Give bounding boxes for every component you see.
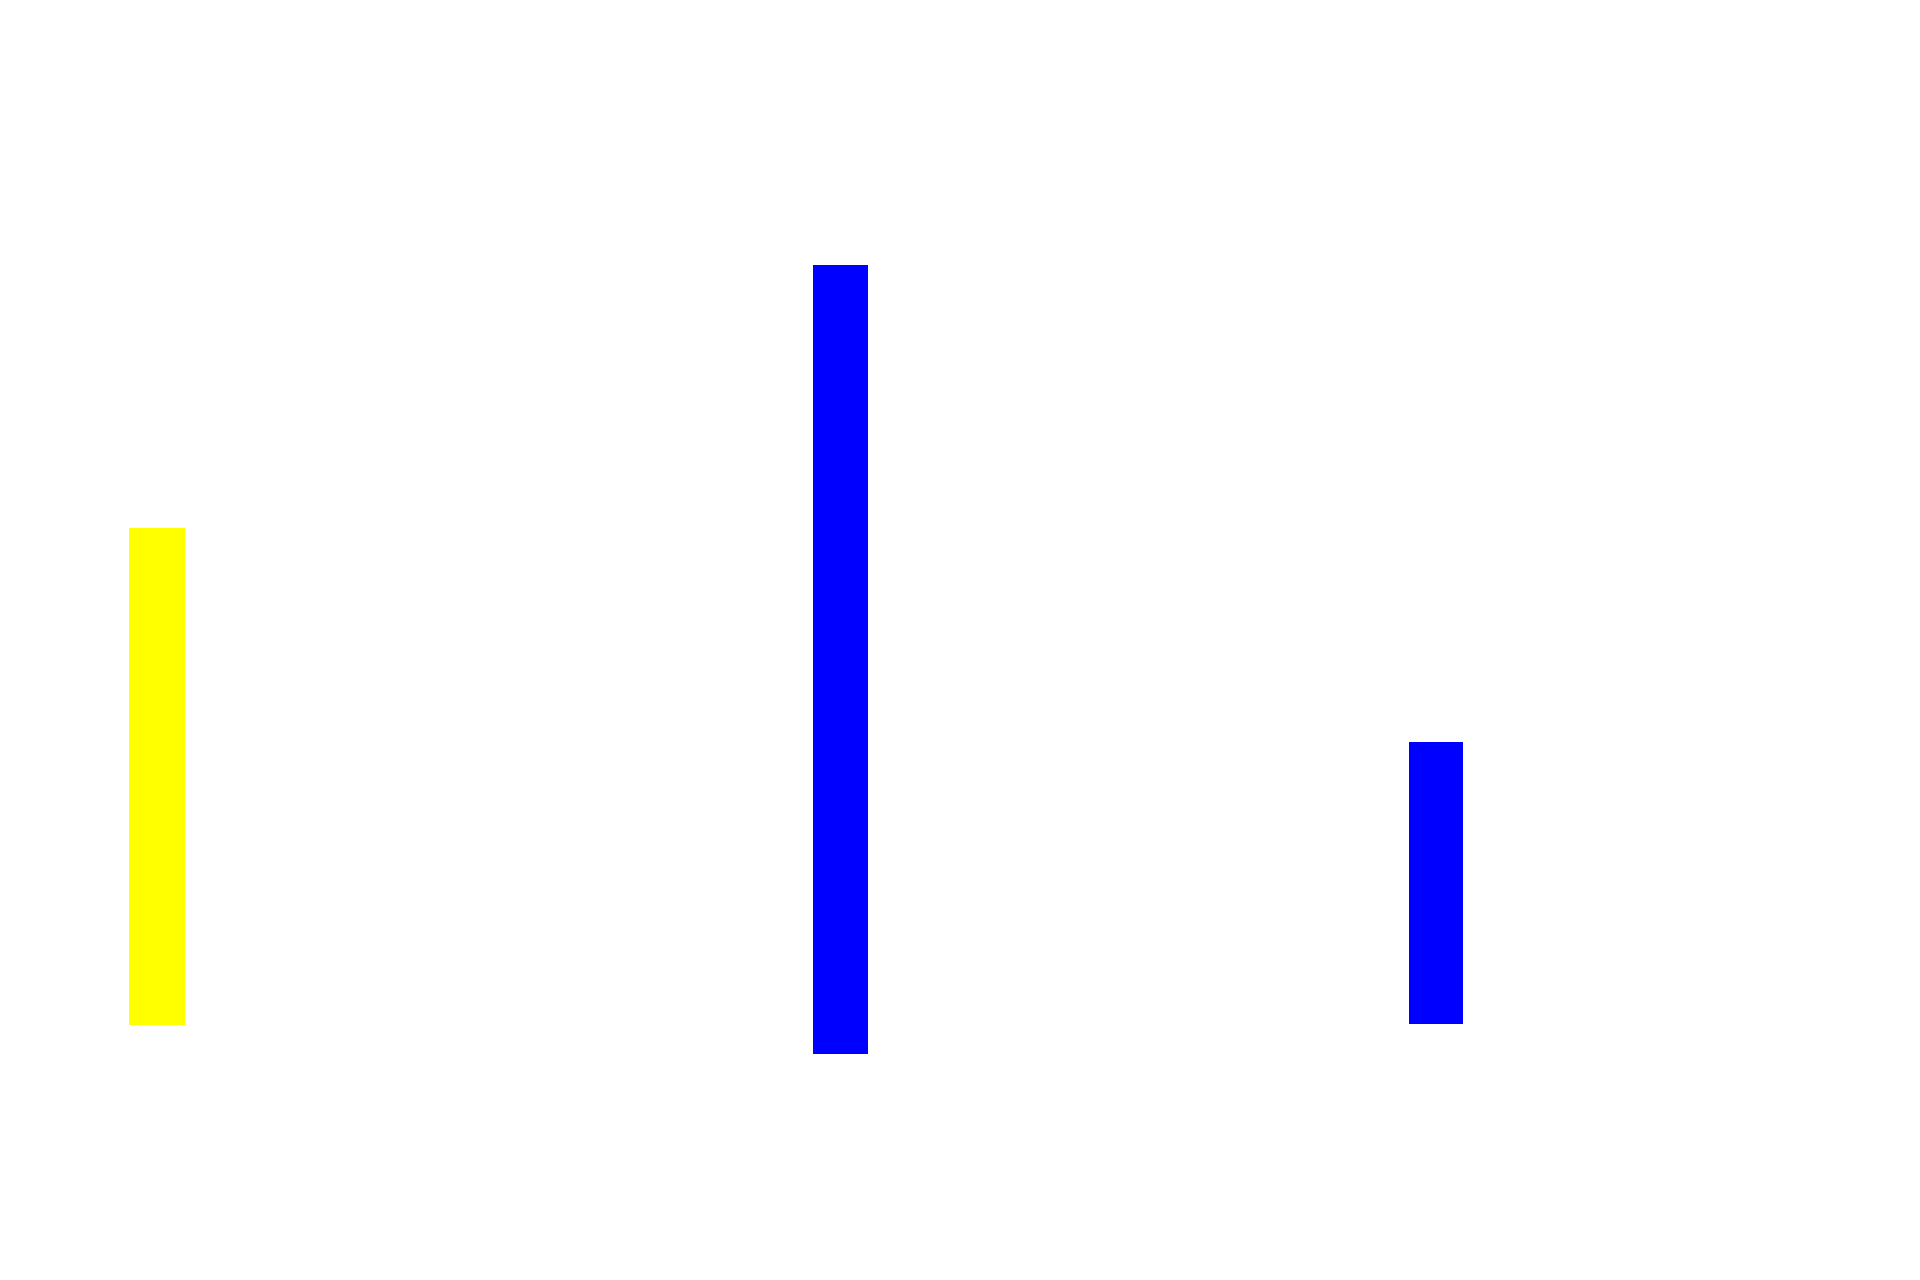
bar 1 (yellow): [129, 528, 185, 1025]
bar 3 (blue, short): [1409, 742, 1463, 1024]
bar 2 (blue, tall): [813, 265, 867, 1054]
